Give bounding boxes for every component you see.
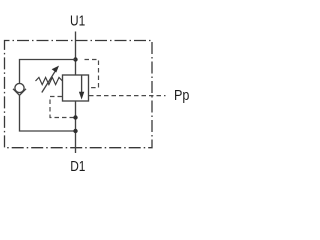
spring adjustment arrow [42, 71, 55, 92]
wire V1 bottom to D1 port [75, 101, 77, 153]
valve envelope boundary (dash-dot) [5, 41, 153, 148]
drain line (dashed) V1 spring chamber to node B [50, 97, 76, 118]
svg-text:Pp: Pp [174, 87, 189, 104]
node B junction dot (drain line joins outlet) [73, 115, 77, 119]
svg-text:U1: U1 [70, 12, 85, 29]
svg-text:D1: D1 [70, 158, 85, 175]
wire check valve bottom to node C [20, 95, 76, 131]
node A junction dot (U1 line / check-valve branch / pilot tap) [73, 57, 77, 61]
wire node A to check valve top [20, 60, 76, 84]
check valve CV1 (ball and seat) [13, 83, 26, 95]
pilot line (dashed) V1 right side to port Pp [89, 95, 166, 97]
wire U1 port stub (above boundary to valve box top) [75, 32, 77, 76]
pilot line (dashed) node A to V1 right side [85, 60, 99, 88]
flow path arrow inside V1 [81, 76, 83, 94]
adjustable spring (zigzag) on V1 left [36, 77, 63, 84]
relief valve main stage V1 (square envelope) [63, 75, 89, 101]
node C junction dot (check valve branch joins outlet) [73, 129, 77, 133]
